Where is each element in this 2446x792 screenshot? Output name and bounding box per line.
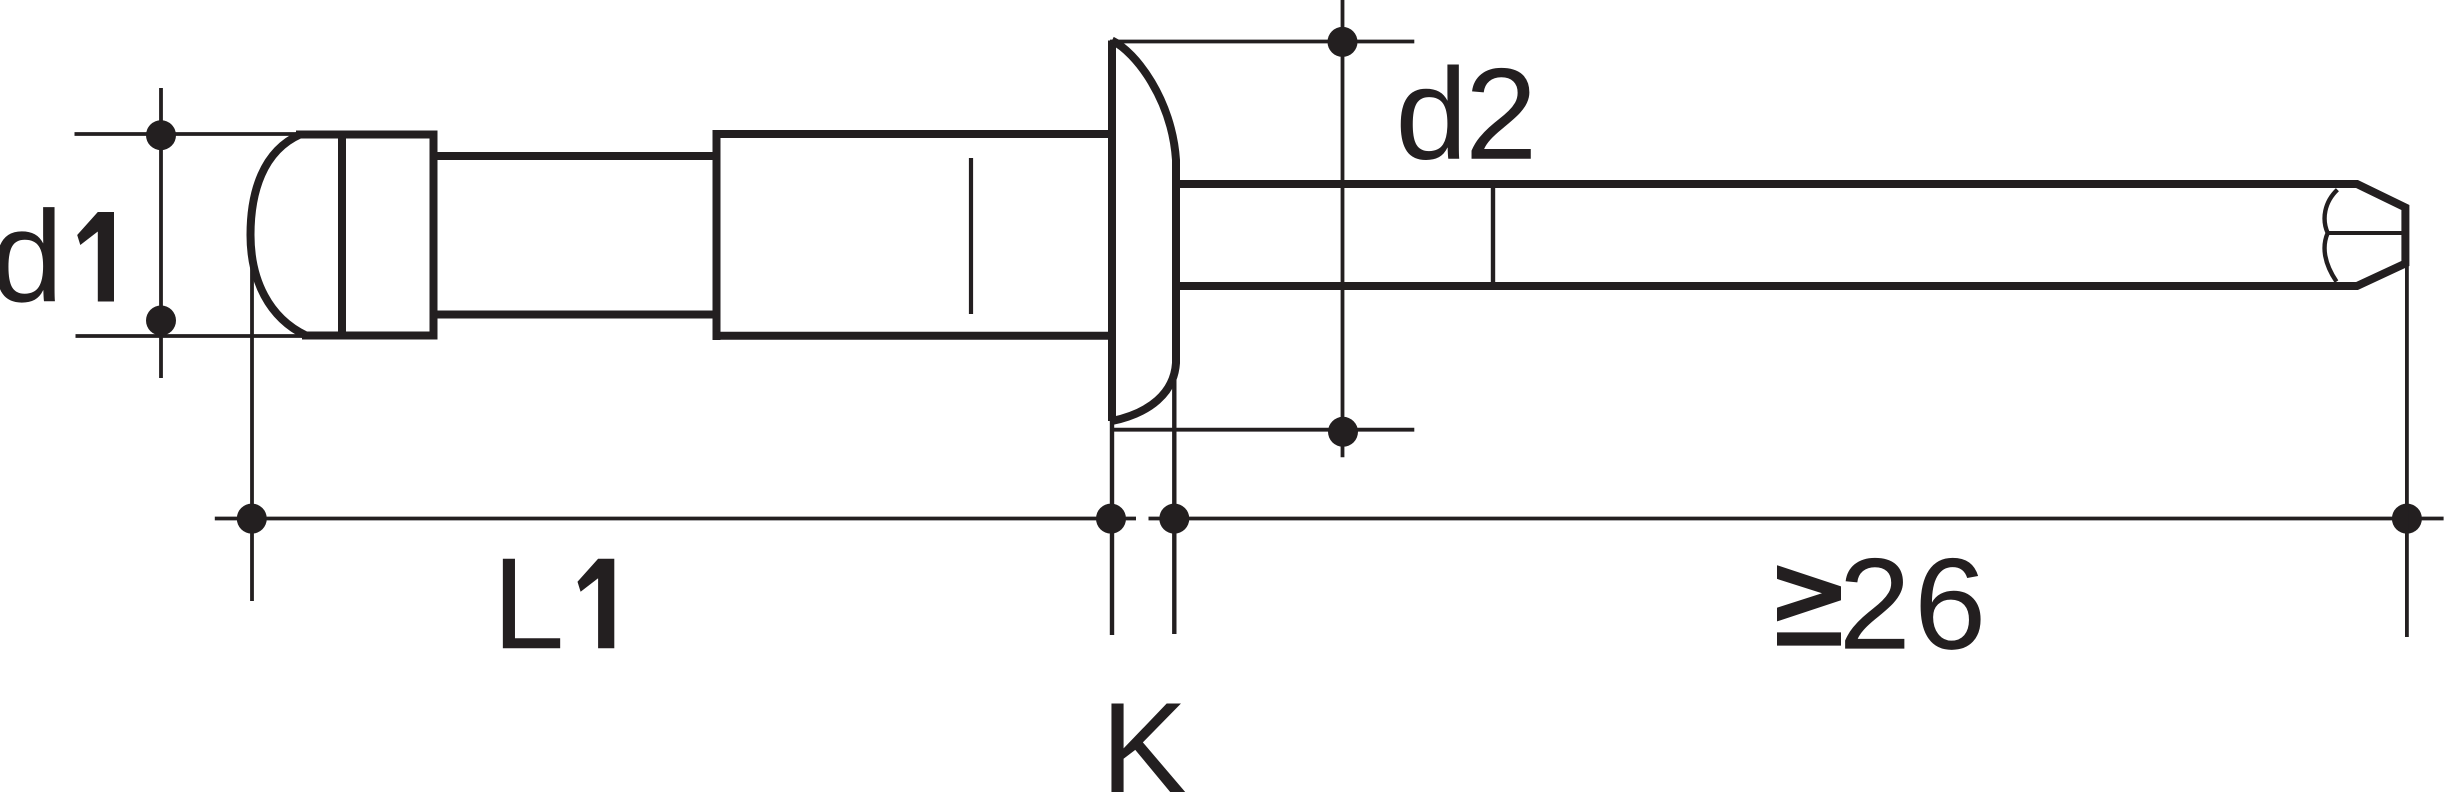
flange left edge: [1108, 41, 1116, 422]
svg-text:2: 2: [1839, 531, 1911, 677]
mandrel stem outline: [1176, 184, 2405, 286]
dot L1 left: [237, 504, 267, 534]
rivet body bottom edge: [302, 332, 434, 340]
dimension line ge26: [1149, 517, 2444, 521]
svg-text:d: d: [1395, 41, 1467, 187]
extension line K right: [1172, 360, 1176, 634]
svg-text:2: 2: [1465, 41, 1537, 187]
grip mark: [969, 158, 973, 314]
shank top line: [434, 152, 721, 160]
dot K right: [1159, 504, 1189, 534]
svg-text:L: L: [492, 530, 564, 676]
extension line d1 top: [75, 132, 298, 136]
dot d2 bottom: [1328, 417, 1358, 447]
svg-text:d: d: [0, 183, 63, 329]
stem tip chevron: [2325, 190, 2338, 282]
dot d1 top: [146, 120, 176, 150]
rivet body top edge: [296, 131, 434, 139]
sleeve bottom edge: [713, 332, 1113, 340]
stem tip center line: [2328, 231, 2405, 235]
extension line d1 bottom: [76, 334, 304, 338]
dimension line L1: [215, 517, 1136, 521]
rivet body end edge: [430, 131, 438, 340]
mandrel head dome: [251, 135, 307, 336]
mandrel head cap line: [338, 131, 346, 340]
dimension line d2: [1341, 0, 1345, 457]
svg-text:6: 6: [1914, 531, 1986, 677]
label ge26: [1777, 565, 1841, 645]
dimension line d1: [159, 88, 163, 378]
dot d1 bottom: [146, 306, 176, 336]
extension line K left: [1110, 421, 1114, 635]
extension line L1 left: [250, 263, 254, 601]
flange outline: [1112, 41, 1176, 422]
dot ge26 right: [2392, 504, 2422, 534]
shank bottom line: [434, 311, 721, 319]
sleeve top edge: [713, 130, 1113, 138]
dot K left: [1096, 504, 1126, 534]
svg-text:K: K: [1101, 675, 1188, 792]
extension line d2 top: [1110, 40, 1414, 44]
extension line ge26 right: [2405, 264, 2409, 637]
extension line d2 bottom: [1110, 428, 1414, 432]
sleeve left edge: [713, 130, 721, 340]
mandrel break line: [1491, 184, 1495, 287]
dot d2 top: [1328, 27, 1358, 57]
